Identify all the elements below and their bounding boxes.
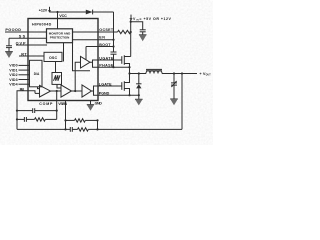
svg-text:PHASE: PHASE [99,64,114,68]
svg-text:LGATE: LGATE [99,82,112,86]
svg-text:PGOOD: PGOOD [5,28,21,32]
node FB vert rowB [16,118,18,120]
wire to upper driver [75,62,80,91]
wire monitor to osc [63,43,65,62]
svg-text:RT: RT [21,52,27,56]
ground CSS [5,52,13,58]
wire PGOOD [5,31,47,33]
wire EN [72,39,114,41]
ground CIN [139,35,147,42]
inductor L1 [146,69,162,73]
wire ramp to PWM comparator [57,84,61,88]
wire monitor to gate logic [73,43,91,71]
transistor Q1 upper MOSFET [122,55,131,73]
resistor ROCSET [118,30,131,33]
wire UGATE internal [90,60,98,62]
svg-text:VCC: VCC [59,14,67,18]
wire row VSEN R [66,119,75,121]
svg-text:OSC: OSC [49,56,57,60]
capacitor C1 [33,108,35,113]
op-amp error amplifier [40,85,51,97]
svg-text:OCSET: OCSET [99,28,114,32]
ground GND pin [87,105,94,111]
diode D1 bootstrap [86,10,93,15]
wire OVP [16,44,47,46]
wire PHASE [98,66,130,68]
node VSEN bottom [64,128,66,130]
diode D2 schottky [136,74,141,96]
node schottky tie [138,72,140,74]
node FB vert rowA [16,110,18,112]
op-amp PWM comparator [61,85,72,97]
svg-text:VSEN: VSEN [58,102,67,106]
wire bottom line right [88,128,182,130]
wire vout sense drop [181,74,183,130]
block D/A [30,60,43,87]
wire OCSET internal+external [72,31,118,33]
wire row B mid [26,118,34,120]
node PWM to upper driver [74,90,76,92]
node rowB' right [96,119,98,121]
capacitor CSS [6,38,12,51]
wire VID0 [19,64,31,66]
ground COUT [170,99,178,105]
resistor R4 [78,128,89,131]
capacitor CIN [140,30,146,35]
svg-text:D/A: D/A [34,72,40,76]
node COMP branch [56,90,58,92]
wire LGATE [98,85,122,87]
wire FB [17,91,35,130]
wire VIN to input cap [131,22,143,30]
node VIN branch [130,21,132,23]
svg-text:= +5V OR +12V: = +5V OR +12V [139,17,171,21]
wire error amp to PWM comparator [51,90,62,92]
node VCC junction [56,11,58,13]
svg-text:VID2: VID2 [9,73,17,77]
chip U1 outline [28,19,98,101]
capacitor C3 [70,127,72,132]
svg-text:VID0: VID0 [9,64,17,68]
op-amp lower gate driver [82,85,92,97]
wire VCC pin stub [57,12,59,29]
svg-text:COMP: COMP [39,102,53,106]
resistor R2 [35,118,46,121]
op-amp upper gate driver [81,56,91,68]
node ROCSET to VIN [130,31,132,33]
node EN tie [112,39,114,41]
wire BOOT pin [86,46,114,48]
block ramp generator [52,73,62,85]
wire diode to boot vertical [93,11,114,13]
svg-text:VID1: VID1 [9,68,17,72]
wire OSC to ramp [55,62,57,73]
capacitor COUT [171,74,177,100]
node schottky to PGND [138,94,140,96]
wire +12V rail to boot diode [50,11,87,13]
node phase rail Q2 drain [128,72,130,74]
node row A comp [56,110,58,112]
wire BOOT vertical from diode [113,12,115,52]
wire BOOT to upper driver [85,47,87,60]
svg-text:EN: EN [99,36,105,40]
svg-text:GND: GND [95,102,103,106]
wire DAC to error amp [38,87,40,89]
svg-text:FB: FB [20,87,25,91]
transistor Q2 lower MOSFET [122,74,130,96]
wire row B left [17,118,24,120]
wire SS [9,37,47,39]
wire bottom line left [17,128,70,130]
resistor R3 [75,119,86,122]
svg-text:UGATE: UGATE [99,56,114,60]
wire FB to error amp [35,92,40,94]
wire RT [19,55,44,57]
wire VID1 [19,69,31,71]
wire VSEN stub [65,101,67,130]
wire row VSEN right [85,119,97,121]
node +12V supply arrow [48,7,51,13]
block monitor and protection [47,29,73,43]
svg-text:OUT: OUT [206,75,212,77]
node vout sense [181,72,183,74]
wire VID3 [19,79,31,81]
capacitor CBOOT [111,52,117,67]
svg-text:PGND: PGND [99,92,110,96]
node Q2 source PGND [128,94,130,96]
svg-text:VID3: VID3 [9,78,17,82]
node PHASE to Q1 source [128,66,130,68]
svg-text:VID4: VID4 [9,83,17,87]
wire LGATE internal [92,86,99,91]
svg-text:BOOT: BOOT [99,43,111,47]
wire UGATE [98,59,122,61]
node VIN supply arrow [129,15,132,21]
wire bottom line mid [72,128,77,130]
block OSC [44,52,62,61]
node CBOOT to PHASE [112,66,114,68]
sawtooth symbol [54,75,61,81]
wire phase rail [130,73,147,75]
svg-text:OVP: OVP [16,41,26,45]
wire VIN vertical to Q1 drain [130,20,132,57]
wire PGND internal [94,91,99,95]
node BOOT tie [112,45,114,47]
wire PGND [98,94,139,96]
ground power [135,95,143,105]
node bottom right vert [96,128,98,130]
wire VID4 [19,83,31,85]
wire output rail [162,73,197,75]
node output cap [173,72,175,74]
wire row B right [45,118,56,120]
wire COMP vertical [56,91,58,119]
wire VID2 [19,74,31,76]
wire GND pin [90,101,92,105]
svg-text:+12V: +12V [39,8,48,12]
wire row A [17,110,33,112]
wire PHASE internal [93,62,99,67]
svg-text:PROTECTION: PROTECTION [50,36,70,40]
svg-text:SS: SS [19,35,26,39]
svg-text:HIP6004D: HIP6004D [32,22,52,26]
wire PWM out [72,90,83,92]
wire vert R3 to bottom [97,120,99,129]
node VSEN row [64,119,66,121]
capacitor C2 [24,117,26,122]
